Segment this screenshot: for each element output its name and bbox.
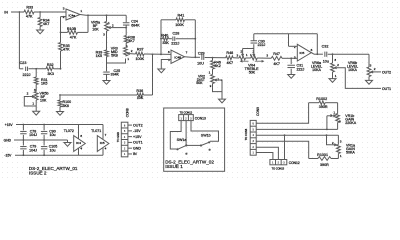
- wire CON9 pin6 to CON12: [256, 153, 273, 160]
- svg-text:2: 2: [240, 50, 242, 54]
- wire IC4a output: [80, 14, 86, 17]
- wire C30 to top rail: [253, 34, 255, 41]
- svg-text:+15V: +15V: [133, 135, 142, 139]
- wire CON9 pin3 rail: [256, 134, 338, 136]
- svg-text:222J: 222J: [258, 43, 266, 47]
- junction R34 node: [39, 11, 41, 13]
- wire R39 to C25 node: [106, 57, 108, 72]
- svg-text:R47: R47: [273, 52, 280, 56]
- svg-text:2: 2: [330, 113, 332, 117]
- potentiometer VR1a: [337, 135, 339, 144]
- wire R1002 to VR1b: [337, 103, 339, 114]
- svg-text:10K: 10K: [137, 96, 144, 100]
- svg-text:334K: 334K: [111, 73, 120, 77]
- svg-text:1: 1: [209, 70, 211, 74]
- svg-text:33K: 33K: [162, 41, 169, 45]
- svg-text:SW1a: SW1a: [177, 138, 187, 142]
- capacitor C79: [22, 140, 24, 146]
- svg-text:1: 1: [127, 57, 129, 61]
- svg-text:3: 3: [340, 139, 342, 143]
- wire CON13 pin3 to SW1b: [191, 121, 219, 142]
- svg-text:100K: 100K: [175, 23, 184, 27]
- svg-text:47K: 47K: [26, 15, 33, 19]
- svg-text:47K: 47K: [63, 48, 70, 52]
- svg-text:4K7: 4K7: [128, 39, 134, 43]
- wire C23 rail: [19, 68, 23, 70]
- wire CON9 pin3 riser to CON12: [284, 135, 286, 159]
- svg-text:5K6: 5K6: [63, 104, 69, 108]
- svg-text:3: 3: [103, 33, 105, 37]
- svg-text:GND: GND: [4, 139, 12, 143]
- capacitor C105: [43, 140, 45, 146]
- svg-text:4: 4: [105, 147, 107, 151]
- svg-text:R1001: R1001: [317, 153, 328, 157]
- resistor R10B feedback: [78, 31, 89, 33]
- svg-text:10K: 10K: [92, 28, 99, 32]
- capacitor C90: [43, 125, 45, 131]
- wire CON13 pin1 to SW1a: [170, 121, 181, 149]
- wire output down to R10B: [87, 15, 89, 32]
- svg-text:10u: 10u: [323, 60, 329, 64]
- potentiometer VR6a: [332, 54, 334, 63]
- svg-text:R33: R33: [26, 6, 33, 10]
- svg-text:1: 1: [340, 154, 342, 158]
- resistor R37: [136, 52, 145, 56]
- svg-text:OUT2: OUT2: [133, 123, 143, 127]
- svg-text:TO CON8: TO CON8: [244, 128, 248, 140]
- junction C31: [290, 57, 292, 59]
- svg-text:50K: 50K: [249, 71, 256, 75]
- svg-text:IC4B: IC4B: [174, 56, 181, 60]
- capacitor C30: [251, 40, 257, 42]
- resistor R48: [226, 56, 233, 60]
- svg-text:-15V: -15V: [133, 129, 141, 133]
- wire VR4 to R47: [257, 57, 271, 59]
- capacitor C31: [290, 58, 292, 64]
- svg-text:R1002: R1002: [316, 97, 327, 101]
- wire rail down to output: [316, 34, 318, 54]
- svg-text:ISSUE 1: ISSUE 1: [165, 164, 183, 169]
- svg-text:TO GND: TO GND: [116, 132, 120, 142]
- svg-text:IC4a: IC4a: [69, 14, 76, 18]
- wire R36 to IC4b junction: [144, 94, 153, 96]
- svg-text:ISSUE 2: ISSUE 2: [29, 170, 47, 175]
- potentiometer VR4 gang A: [239, 56, 245, 60]
- resistor R31: [35, 69, 37, 77]
- capacitor C24: [123, 22, 130, 24]
- ground on GND rail: [67, 140, 69, 143]
- capacitor C29: [201, 55, 203, 60]
- wire rail to IC5 pin2: [288, 34, 290, 47]
- wire R33 to IC4a pin3: [34, 11, 66, 13]
- wire VR4 center: [246, 57, 251, 59]
- wire CON13 pin2 to SW1a: [185, 121, 187, 145]
- svg-text:2: 2: [131, 49, 133, 53]
- resistor R35: [59, 43, 63, 52]
- svg-text:1: 1: [32, 101, 34, 105]
- svg-text:1: 1: [80, 9, 82, 13]
- potentiometer VR2: [212, 69, 214, 75]
- resistor R39: [105, 50, 109, 57]
- svg-text:4K7: 4K7: [273, 62, 280, 66]
- ground below R100: [57, 112, 64, 116]
- wire CON9 pin4 to R1001: [256, 141, 309, 158]
- svg-text:C32: C32: [322, 45, 329, 49]
- svg-text:10K: 10K: [40, 98, 47, 102]
- svg-text:IC5: IC5: [299, 51, 304, 55]
- wire CON9 pin5 to CON12: [256, 147, 278, 159]
- wire R47 to IC5 pin3: [282, 57, 297, 59]
- resistor R38: [124, 36, 128, 44]
- svg-text:10u: 10u: [50, 148, 56, 152]
- svg-text:IC5: IC5: [100, 141, 105, 145]
- svg-text:10U: 10U: [197, 62, 204, 66]
- svg-text:390R: 390R: [319, 105, 328, 109]
- ground below C25: [106, 74, 108, 80]
- wire VR6a wiper to OUT1: [337, 68, 381, 89]
- svg-text:C28: C28: [173, 31, 180, 35]
- ground IC4b pin5: [158, 69, 165, 73]
- potentiometer VR4 gang B: [251, 56, 257, 60]
- wire pin2 column down: [60, 17, 62, 43]
- svg-text:CON13: CON13: [195, 116, 206, 120]
- svg-text:222J: 222J: [171, 41, 179, 45]
- svg-text:GND: GND: [133, 146, 141, 150]
- wire SW1a to SW1b: [186, 144, 201, 146]
- svg-text:3: 3: [126, 44, 128, 48]
- svg-text:R32: R32: [47, 63, 54, 67]
- wire R35 to bottom rail: [60, 51, 62, 69]
- svg-text:3: 3: [237, 53, 239, 57]
- capacitor C23: [25, 67, 27, 71]
- junction R31 node: [35, 68, 37, 70]
- junction output feedback: [87, 14, 89, 16]
- bias rail VB: [60, 94, 137, 96]
- wire IC4b pin5 to ground: [161, 60, 171, 70]
- ground below R34: [37, 30, 44, 34]
- svg-text:1K5: 1K5: [96, 54, 102, 58]
- resistor R40: [161, 38, 163, 40]
- op-amp IC4b: [171, 50, 185, 64]
- svg-text:7: 7: [105, 133, 107, 137]
- svg-text:+15V: +15V: [5, 123, 14, 127]
- wire VR1b wiper loop: [326, 116, 328, 130]
- svg-text:2: 2: [374, 67, 376, 71]
- svg-text:222J: 222J: [297, 68, 305, 72]
- capacitor C32: [324, 52, 326, 57]
- svg-text:3: 3: [370, 64, 372, 68]
- svg-text:390R: 390R: [320, 163, 329, 167]
- svg-text:C29: C29: [198, 51, 205, 55]
- svg-text:3: 3: [63, 6, 65, 10]
- svg-text:OUT2: OUT2: [382, 70, 391, 74]
- capacitor C25: [103, 71, 110, 73]
- wire VR1b pin3 to rail: [337, 123, 339, 130]
- svg-text:R48: R48: [226, 51, 233, 55]
- wire IC5 output: [311, 53, 314, 55]
- svg-text:IC4: IC4: [76, 141, 81, 145]
- svg-text:50KA: 50KA: [346, 150, 355, 154]
- svg-text:6: 6: [311, 48, 313, 52]
- svg-text:TO CON13: TO CON13: [272, 167, 285, 170]
- svg-text:1: 1: [333, 110, 335, 114]
- svg-text:CON12: CON12: [289, 161, 300, 165]
- svg-text:220KA: 220KA: [345, 121, 356, 125]
- svg-text:5KB: 5KB: [111, 54, 118, 58]
- feedback right column: [194, 20, 196, 58]
- svg-text:2: 2: [27, 92, 29, 96]
- capacitor C28: [172, 37, 174, 41]
- resistor R47: [271, 56, 282, 60]
- wire R32 to R35 column: [54, 68, 61, 70]
- resistor R100: [59, 95, 61, 100]
- svg-text:47K: 47K: [70, 35, 77, 39]
- svg-text:104J: 104J: [29, 148, 37, 152]
- svg-text:IN: IN: [133, 152, 137, 156]
- svg-text:SW1b: SW1b: [201, 133, 211, 137]
- capacitor C78: [22, 125, 24, 131]
- resistor R34: [39, 12, 41, 18]
- potentiometer VR6b: [368, 54, 370, 67]
- svg-text:8: 8: [80, 134, 82, 138]
- wire R48 to VR4: [233, 57, 239, 59]
- wire C29 to R48: [205, 57, 226, 59]
- svg-text:R40: R40: [161, 34, 168, 38]
- svg-text:3: 3: [339, 120, 341, 124]
- wire VR5a pin3 down to R39: [106, 31, 108, 50]
- svg-text:4K7: 4K7: [43, 22, 50, 26]
- sheet 2 border box: [164, 108, 225, 171]
- svg-text:OUT1: OUT1: [382, 87, 391, 91]
- wire output to C24 column: [125, 15, 127, 22]
- svg-text:2: 2: [112, 24, 114, 28]
- svg-text:TL072: TL072: [64, 129, 74, 133]
- wire rail to VR1a wiper: [327, 135, 332, 145]
- resistor R46: [212, 58, 214, 61]
- svg-text:R37: R37: [137, 48, 144, 52]
- svg-text:3: 3: [334, 58, 336, 62]
- junction C24/VR5a wiper: [125, 27, 127, 29]
- ground below VR6a: [329, 79, 336, 83]
- feedback rail IC5: [254, 33, 317, 35]
- svg-text:CON9: CON9: [256, 107, 260, 116]
- VR4 rotation arrows: [241, 60, 249, 62]
- op-amp IC5: [297, 44, 311, 61]
- resistor R1001: [309, 158, 318, 160]
- svg-text:222J: 222J: [23, 73, 31, 77]
- svg-text:R41: R41: [178, 14, 185, 18]
- ground below VR6b: [366, 80, 373, 84]
- svg-text:3: 3: [294, 55, 296, 59]
- svg-text:3K3: 3K3: [47, 72, 54, 76]
- wire IC4a pin2: [61, 16, 67, 18]
- junction R36 column: [152, 54, 154, 56]
- resistor R32: [46, 67, 54, 71]
- wire IC4b output: [185, 56, 192, 59]
- svg-text:1K5: 1K5: [41, 82, 47, 86]
- wire IN to R33: [11, 11, 24, 13]
- wire C23 to R32: [29, 68, 47, 70]
- svg-text:C23: C23: [20, 61, 27, 65]
- wire junction down to R36 rail: [152, 54, 154, 95]
- svg-text:1: 1: [335, 74, 337, 78]
- svg-text:R36: R36: [136, 89, 143, 93]
- wire CON9 pin1 to R1002: [256, 103, 308, 124]
- CON8 pin wires and labels: [128, 124, 132, 126]
- potentiometer VR3: [124, 48, 128, 57]
- svg-text:R10B: R10B: [67, 27, 77, 31]
- svg-text:10KA: 10KA: [312, 68, 321, 72]
- connector CON12: [270, 160, 287, 165]
- junction input node: [19, 11, 21, 13]
- wire VR5a wiper to C24 node: [111, 27, 126, 29]
- svg-text:IN: IN: [4, 10, 8, 14]
- feedback column IC4b: [160, 20, 162, 55]
- svg-text:3: 3: [266, 54, 268, 58]
- junction pin2/R10B: [60, 32, 62, 34]
- svg-text:10u: 10u: [50, 133, 56, 137]
- VR4 wiper bar to C30: [243, 48, 254, 50]
- svg-text:3K2: 3K2: [214, 64, 220, 68]
- wire C24 to wiper node: [125, 25, 127, 35]
- wire down to VR5a: [106, 14, 108, 16]
- ground below VR5b: [33, 111, 40, 115]
- ground below VR2: [221, 92, 223, 100]
- resistor R41 feedback: [161, 19, 176, 21]
- potentiometer VR5b: [35, 85, 37, 92]
- resistor R36: [137, 93, 144, 97]
- svg-text:2: 2: [332, 141, 334, 145]
- svg-text:2: 2: [294, 45, 296, 49]
- svg-text:-15V: -15V: [4, 154, 12, 158]
- junction R100: [59, 94, 61, 96]
- svg-text:2: 2: [337, 63, 339, 67]
- wire C25 node to VR3 pin1: [107, 59, 126, 64]
- svg-text:4: 4: [80, 147, 82, 151]
- ground below C31: [288, 75, 295, 79]
- wire VR3 wiper to R37: [130, 53, 136, 55]
- svg-text:1: 1: [246, 53, 248, 57]
- resistor R33: [24, 10, 34, 14]
- svg-text:10KA: 10KA: [348, 68, 357, 72]
- op-amp IC4a: [66, 9, 80, 20]
- svg-text:TL071: TL071: [91, 129, 101, 133]
- svg-text:104J: 104J: [29, 133, 37, 137]
- wire VR6b wiper to OUT2: [373, 71, 381, 73]
- junction R46 node: [212, 57, 214, 59]
- wire VR2 wiper loop to ground: [213, 80, 223, 92]
- svg-text:100K: 100K: [135, 57, 144, 61]
- svg-text:50K: 50K: [196, 81, 203, 85]
- wire CON9 pin2 rail: [256, 128, 337, 130]
- svg-text:684K: 684K: [131, 23, 140, 27]
- resistor R1002: [309, 102, 319, 104]
- wire R38 to VR3: [125, 43, 127, 48]
- svg-text:4K7: 4K7: [227, 61, 234, 65]
- svg-text:OUT1: OUT1: [133, 141, 143, 145]
- svg-text:CON8: CON8: [126, 108, 130, 117]
- wire input node down to C23 rail: [18, 12, 20, 69]
- wire C32 to VR6 pots: [328, 53, 369, 55]
- wire R37 to IC4b pin6: [144, 53, 171, 55]
